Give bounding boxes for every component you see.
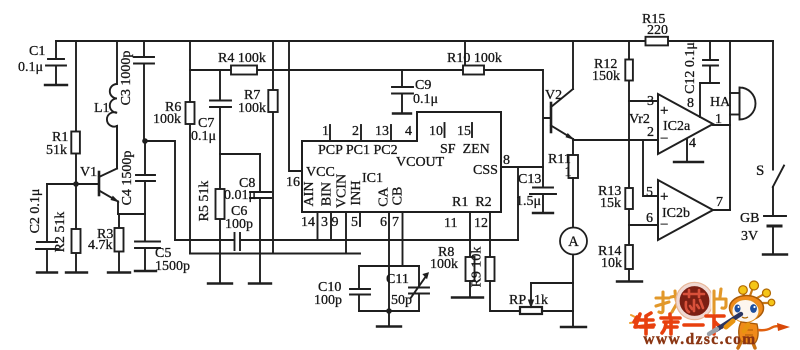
wire junction to AIN line [145,141,175,240]
svg-text:0.1μ: 0.1μ [18,60,43,75]
pin 1 tick [329,125,331,141]
capacitor C6 [235,233,241,250]
svg-text:PCP PC1 PC2: PCP PC1 PC2 [318,143,398,158]
watermark sparkles [630,315,637,323]
svg-text:7: 7 [716,195,723,210]
svg-text:3: 3 [321,215,328,230]
capacitor C3 [134,41,154,141]
svg-text:SF ZEN: SF ZEN [440,142,490,157]
svg-text:100k: 100k [238,101,266,116]
svg-text:V2: V2 [545,88,562,103]
svg-text:11: 11 [444,216,457,231]
resistor R2 [72,184,81,273]
wire R1 branch [75,41,77,184]
capacitor C10 frame [359,266,419,311]
svg-text:15: 15 [457,124,471,139]
ground C9 [393,112,411,114]
svg-text:150k: 150k [592,69,620,84]
svg-text:10k: 10k [601,256,622,271]
pin 15 tick [471,123,473,137]
pin 3 stub [330,212,332,240]
resistor R5 [216,154,225,284]
pin 13 tick [390,125,392,141]
svg-text:C2 0.1μ: C2 0.1μ [28,189,43,234]
svg-text:9: 9 [332,215,339,230]
svg-text:0.1μ: 0.1μ [191,129,216,144]
svg-text:www.dzsc.com: www.dzsc.com [643,331,756,348]
pin 5 stub [359,212,361,226]
wire top supply rail [56,40,773,42]
wire pin7 output [713,209,730,211]
wire speaker branch [729,41,731,210]
svg-text:IC2b: IC2b [662,206,690,221]
svg-text:2: 2 [647,125,654,140]
resistor R3 [115,214,124,273]
watermark wei ku yi xia red [634,313,724,334]
watermark char pian gold [714,289,726,313]
svg-text:8: 8 [503,153,510,168]
watermark group [630,281,790,348]
capacitor C4 [136,141,155,214]
svg-text:R9 10k: R9 10k [470,247,485,288]
wire AIN/BIN line [175,239,518,241]
wire A to ground [572,255,574,328]
resistor R1 [71,132,80,154]
svg-text:1.5μ: 1.5μ [516,194,541,209]
wire VCC distribution [190,69,463,71]
svg-text:1: 1 [715,112,722,127]
ground A [561,326,586,328]
svg-text:VCIN: VCIN [335,174,350,208]
ground R8 [452,296,483,298]
svg-text:1500p: 1500p [155,259,190,274]
svg-text:CSS: CSS [473,163,498,178]
svg-text:+: + [660,189,668,205]
svg-text:S: S [756,163,764,179]
resistor R15 [646,37,669,46]
watermark char zhao gold [656,291,681,313]
svg-text:C12 0.1μ: C12 0.1μ [683,42,698,94]
wire switch to battery [772,187,774,216]
ground R3 [108,271,130,273]
ground C13 [533,212,553,214]
svg-text:5: 5 [351,215,358,230]
capacitor C5 [135,214,160,271]
svg-text:7: 7 [392,215,399,230]
node C3-C4 junction [142,138,148,144]
watermark char xin red [684,290,704,312]
svg-text:6: 6 [380,215,387,230]
svg-text:+: + [660,103,668,119]
svg-text:15k: 15k [600,196,621,211]
svg-text:5: 5 [646,185,653,200]
wire rail to R10 [464,41,466,70]
svg-text:R1 R2: R1 R2 [452,195,492,210]
capacitor C10 [350,266,370,311]
svg-text:1k: 1k [534,293,548,308]
ground IC2a [674,161,703,163]
svg-text:51k: 51k [46,143,67,158]
svg-text:C1: C1 [29,44,45,59]
svg-text:INH: INH [349,181,364,206]
capacitor C7 [210,70,231,154]
svg-text:220: 220 [647,23,668,38]
pin 10 tick [444,123,446,137]
svg-text:IC2a: IC2a [663,119,691,134]
resistor R10 [463,66,484,75]
svg-text:VCOUT: VCOUT [396,155,445,170]
op-amp U2a [658,94,713,154]
svg-text:100p: 100p [314,293,342,308]
svg-text:4: 4 [405,124,412,139]
wire pin1 output [713,124,730,126]
wire right rail [772,41,774,170]
svg-text:BIN: BIN [320,182,335,206]
watermark magnifier circle [678,285,711,318]
svg-text:RP: RP [509,293,526,308]
wire pin2 emitter node [573,140,658,196]
ground battery [763,253,787,255]
resistor R11 [569,155,579,228]
svg-text:2: 2 [352,124,359,139]
speaker HA [730,88,756,120]
svg-text:6: 6 [646,211,653,226]
transistor V1 [99,126,118,214]
svg-text:0.01μ: 0.01μ [224,188,256,203]
watermark mascot [709,281,790,348]
svg-text:C11: C11 [386,272,409,287]
svg-text:10: 10 [429,124,443,139]
node base junction [73,181,79,187]
svg-text:8: 8 [687,96,694,111]
ground C5 [135,270,156,272]
resistor R7 [268,41,277,254]
svg-text:1: 1 [565,165,572,180]
switch S [773,166,784,188]
ammeter A [560,228,587,255]
resistor R9 [486,257,521,311]
resistor R6 [186,102,195,124]
svg-text:AIN: AIN [302,182,317,207]
wire C7 to C8 [220,153,260,155]
pin 6 stub CA [388,212,390,311]
svg-text:V1: V1 [80,165,97,180]
IC U1 box [302,112,501,212]
svg-text:4: 4 [689,136,696,151]
pin 14 stub [317,212,319,240]
wire VCIN line [190,253,360,255]
svg-text:R10 100k: R10 100k [447,51,502,66]
svg-text:CA: CA [377,186,392,206]
svg-text:12: 12 [474,216,488,231]
capacitor C8 [250,154,271,284]
wire R10 to V2 base [484,70,551,188]
capacitor C9 [392,70,413,114]
svg-text:3V: 3V [741,229,758,244]
svg-text:GB: GB [740,211,759,226]
potentiometer RP [520,283,573,314]
inductor L1 [107,41,117,169]
ground R5 [208,282,232,284]
svg-text:HA: HA [710,95,731,110]
svg-text:13: 13 [375,124,389,139]
svg-text:16: 16 [286,175,300,190]
svg-text:14: 14 [301,215,315,230]
wire CSS feedback [517,167,519,240]
wire pin8 supply [699,83,701,117]
ground CA [377,325,401,327]
wire base node [47,183,98,185]
svg-text:C4 1500p: C4 1500p [120,151,135,206]
wire pin6 node [629,224,658,226]
op-amp U2b [658,180,713,240]
wire CSS pin 8 [501,166,543,168]
resistor R13 [625,188,633,209]
pin 2 tick [360,125,362,141]
node CA ground junction [386,308,392,314]
svg-text:A: A [568,234,579,250]
svg-text:IC1: IC1 [362,171,383,186]
ground C8 [249,282,271,284]
svg-text:C13: C13 [518,172,541,187]
capacitor C12 [700,41,719,83]
svg-text:1: 1 [322,124,329,139]
svg-text:CB: CB [391,187,406,206]
svg-text:4.7k: 4.7k [88,238,113,253]
svg-text:100p: 100p [225,217,253,232]
svg-text:R2 51k: R2 51k [53,212,68,253]
svg-text:100k: 100k [153,112,181,127]
capacitor C1 [45,41,67,85]
wire VCC to pin16 [289,41,302,171]
svg-text:100k: 100k [430,257,458,272]
capacitor C13 [530,188,556,214]
pin 7 stub CB [402,212,404,266]
resistor R12 chain [625,41,633,282]
svg-text:R4 100k: R4 100k [218,51,266,66]
wire CA ground stub [388,311,390,327]
svg-text:50p: 50p [391,293,412,308]
ground R2 [66,271,87,273]
wire pin4 ground [686,139,688,163]
resistor R8 [466,257,475,298]
svg-text:3: 3 [647,94,654,109]
ground C1 [0,0,1,1]
svg-text:C3 1000p: C3 1000p [119,51,134,106]
pin 11 stub [469,212,471,257]
transistor V2 [551,41,573,155]
pin 12 stub [489,212,491,257]
wire pin3 node [629,100,658,102]
capacitor C2 [36,184,58,273]
svg-text:0.1μ: 0.1μ [413,92,438,107]
wire R4 rail branch [189,41,191,254]
wire emitter node [118,213,145,215]
battery GB [764,216,786,255]
ground C2 [37,271,57,273]
capacitor C11 trimmer [409,266,429,311]
svg-text:R5 51k: R5 51k [197,181,212,222]
svg-text:C9: C9 [415,78,431,93]
resistor R14 [625,245,633,269]
resistor R4 [231,66,257,75]
svg-text:VCC: VCC [306,165,335,180]
ground R14 [617,280,642,282]
pin 9 stub [345,212,347,254]
svg-text:L1: L1 [94,101,110,116]
